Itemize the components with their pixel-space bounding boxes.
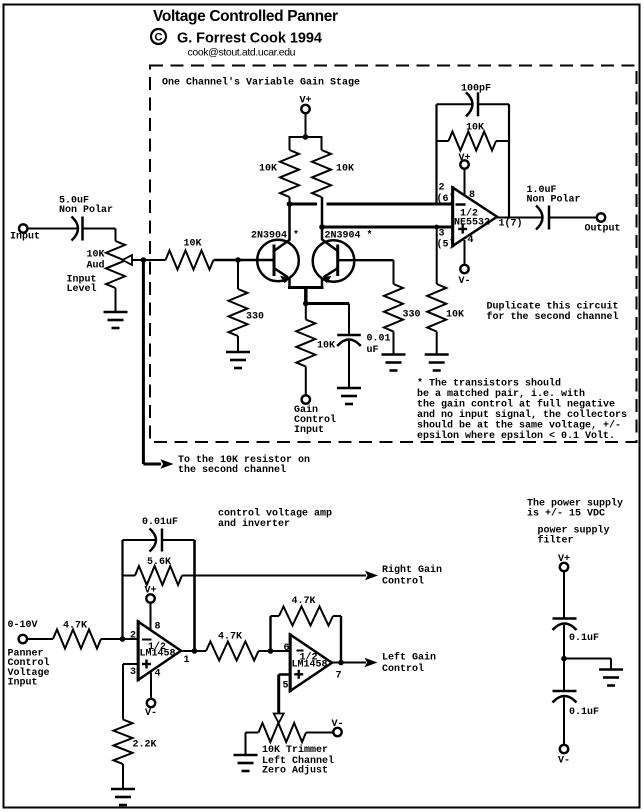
svg-text:should be at the same voltage,: should be at the same voltage, +/- (417, 420, 621, 432)
resistor 10K op-amp plus load (427, 225, 464, 355)
svg-text:8: 8 (155, 622, 161, 633)
svg-text:Level: Level (67, 283, 97, 295)
svg-text:the gain control at full negat: the gain control at full negative (417, 399, 615, 411)
svg-text:V+: V+ (459, 153, 471, 164)
svg-text:6: 6 (284, 643, 290, 654)
svg-text:0.1uF: 0.1uF (569, 633, 599, 644)
wire pin5 LM1458b (279, 673, 290, 676)
svg-text:4: 4 (468, 235, 474, 246)
svg-text:NE5532: NE5532 (454, 218, 490, 229)
wire V+ to pin8 (464, 169, 466, 195)
svg-text:0-10V: 0-10V (8, 620, 38, 631)
wire top bar between collector resistors (289, 136, 323, 138)
gain control input terminal (294, 395, 336, 436)
svg-text:0.1uF: 0.1uF (569, 707, 599, 718)
svg-text:LM1458: LM1458 (292, 660, 328, 671)
wire to pin6 (259, 650, 291, 652)
V- terminal trimmer (332, 719, 344, 736)
svg-text:Aud: Aud (87, 260, 105, 272)
V- terminal U1 (459, 265, 471, 287)
svg-text:8: 8 (469, 190, 475, 201)
resistor 2.2K (114, 720, 157, 791)
op-amp U2 LM1458 b (290, 633, 332, 692)
ground trimmer (234, 755, 258, 771)
wire to second channel (thick vertical) (142, 260, 145, 464)
svg-text:V-: V- (145, 708, 157, 719)
svg-text:4.7K: 4.7K (292, 596, 316, 607)
svg-text:C: C (155, 32, 163, 44)
wire V+ down (305, 113, 307, 137)
V+ terminal power (558, 554, 570, 571)
resistor 330 left (229, 257, 265, 352)
wire pin3 LM1458a (123, 663, 138, 665)
wire right collector vertical (321, 197, 324, 240)
wire op-amp output (497, 217, 542, 219)
resistor 10K series input (166, 239, 214, 270)
ground under right 330 (382, 355, 406, 371)
svg-text:5.6K: 5.6K (147, 557, 171, 568)
wire feedback left vertical LM1458a (121, 540, 123, 639)
svg-text:Duplicate this circuit: Duplicate this circuit (487, 301, 619, 313)
capacitor 1.0uF non polar output (527, 185, 581, 230)
wire feedback right vertical LM1458a (193, 540, 196, 651)
svg-text:4.7K: 4.7K (218, 632, 242, 643)
svg-text:LM1458: LM1458 (140, 649, 176, 660)
wire emitter tap down (304, 288, 308, 304)
svg-text:epsilon where epsilon < 0.1 Vo: epsilon where epsilon < 0.1 Volt. (417, 430, 615, 442)
wire cap to output terminal (549, 217, 597, 219)
op-amp U1 NE5532 (453, 186, 498, 247)
capacitor 0.01uF feedback LM1458a (123, 517, 195, 552)
wire base Q2 to 330 (338, 259, 394, 261)
svg-text:the second channel: the second channel (178, 464, 286, 476)
svg-text:be a matched pair, i.e. with: be a matched pair, i.e. with (417, 388, 585, 400)
svg-text:2N3904 *: 2N3904 * (325, 230, 373, 242)
capacitor 100pF feedback (437, 84, 510, 117)
svg-text:3: 3 (439, 229, 445, 240)
svg-text:3: 3 (130, 667, 136, 678)
svg-text:(6): (6) (437, 193, 455, 205)
resistor 10K gain control (296, 304, 335, 396)
wire emitter bar (288, 286, 324, 289)
svg-text:2.2K: 2.2K (133, 740, 157, 751)
svg-text:Control: Control (382, 576, 424, 588)
svg-text:Control: Control (382, 663, 424, 675)
wire 10K to base Q1 (214, 259, 275, 261)
ground under left 330 (226, 352, 250, 368)
wire output LM1458b (332, 662, 366, 664)
V+ terminal U1 (459, 153, 471, 169)
V- terminal power (558, 745, 570, 767)
svg-text:Input: Input (10, 232, 40, 243)
resistor 10K left collector (259, 137, 299, 204)
svg-text:330: 330 (403, 310, 421, 321)
svg-text:V+: V+ (558, 554, 570, 565)
svg-text:0.01uF: 0.01uF (142, 517, 178, 528)
svg-text:Zero Adjust: Zero Adjust (262, 765, 328, 777)
svg-text:Input: Input (8, 678, 38, 689)
wire V+ down (563, 571, 565, 618)
arrow left gain control (365, 658, 378, 667)
V+ terminal LM1458a (145, 586, 157, 603)
svg-text:V-: V- (332, 719, 344, 730)
ground under 10K load (425, 355, 449, 371)
arrow right gain control (365, 571, 378, 580)
svg-text:cook@stout.atd.ucar.edu: cook@stout.atd.ucar.edu (188, 47, 296, 59)
panner control input terminal (8, 620, 38, 643)
capacitor 0.01uF emitter (337, 304, 390, 389)
svg-text:10K: 10K (184, 239, 202, 250)
wire wiper to 10K (132, 259, 166, 261)
wire pin3 from right collector to op-amp (322, 226, 453, 229)
svg-text:4.7K: 4.7K (63, 621, 87, 632)
copyright symbol (151, 29, 166, 44)
svg-text:4: 4 (155, 669, 161, 680)
capacitor 5.0uF non polar (59, 196, 113, 241)
ground under 0.01uF (337, 388, 361, 404)
svg-text:One Channel's Variable Gain St: One Channel's Variable Gain Stage (162, 77, 360, 89)
output terminal (585, 213, 621, 234)
svg-text:2: 2 (439, 183, 445, 194)
svg-text:is +/- 15 VDC: is +/- 15 VDC (527, 508, 605, 520)
svg-text:330: 330 (246, 312, 264, 323)
dashed box: one channel variable gain stage (150, 66, 637, 443)
wire 4.7K to pin2 (101, 638, 138, 640)
wire pin2 from left collector to op-amp (with crossover gap) (290, 203, 318, 206)
svg-text:G. Forrest Cook 1994: G. Forrest Cook 1994 (177, 31, 322, 47)
svg-text:10K: 10K (466, 123, 484, 134)
resistor 10K feedback (437, 123, 510, 151)
svg-text:and no input signal, the colle: and no input signal, the collectors (417, 409, 627, 421)
svg-text:Voltage Controlled Panner: Voltage Controlled Panner (153, 8, 338, 25)
svg-text:Non Polar: Non Polar (527, 194, 581, 206)
svg-text:Left Gain: Left Gain (382, 652, 436, 664)
svg-text:10K: 10K (446, 310, 464, 321)
capacitor 0.1uF upper (553, 619, 600, 645)
svg-text:10K: 10K (259, 164, 277, 175)
svg-text:Right Gain: Right Gain (382, 564, 442, 576)
svg-text:(5): (5) (437, 239, 455, 251)
potentiometer 10K Aud input level (67, 229, 126, 313)
wire pin4 to V- (464, 240, 466, 265)
wire feedback left vertical (435, 104, 437, 204)
svg-text:filter: filter (538, 535, 574, 547)
arrow to second channel (161, 459, 174, 468)
svg-text:10K: 10K (87, 250, 105, 261)
ground under pot (104, 312, 128, 328)
svg-text:Non Polar: Non Polar (59, 204, 113, 216)
wire trimmer left to ground (246, 732, 259, 734)
V+ terminal gain stage (300, 96, 312, 114)
svg-text:V+: V+ (145, 586, 157, 597)
svg-text:10K: 10K (336, 164, 354, 175)
wire junction to ground (564, 658, 611, 660)
wire feedback left vertical LM1458b (269, 616, 271, 651)
svg-text:10K: 10K (317, 341, 335, 352)
wire feedback right vertical (508, 104, 510, 217)
svg-text:7: 7 (336, 671, 342, 682)
wire cap to pot (83, 228, 116, 230)
svg-text:0.01: 0.01 (367, 334, 391, 345)
input terminal (10, 224, 40, 242)
resistor 330 right (384, 284, 421, 355)
resistor 4.7K series (206, 632, 259, 661)
svg-text:V-: V- (558, 756, 570, 767)
wire trimmer right to V- (306, 732, 333, 734)
transistor Q2 2N3904 right (313, 240, 355, 288)
svg-text:Output: Output (585, 224, 621, 235)
svg-text:100pF: 100pF (461, 84, 491, 95)
wire V+ to pin8 LM1458a (150, 603, 152, 630)
trimmer 10K (259, 723, 335, 777)
wire junction to cap (306, 302, 349, 305)
svg-text:Input: Input (294, 425, 324, 436)
wire left collector vertical (288, 204, 291, 240)
ground under 2.2K (111, 789, 135, 805)
svg-text:1: 1 (184, 655, 190, 666)
resistor 5.6K feedback (123, 557, 182, 585)
transistor Q1 2N3904 left (257, 240, 299, 288)
wire cap2 to V- (563, 698, 565, 745)
resistor 4.7K input (53, 621, 101, 649)
svg-text:control voltage amp: control voltage amp (218, 508, 332, 520)
svg-text:uF: uF (367, 345, 379, 356)
svg-text:and inverter: and inverter (218, 518, 290, 530)
resistor 10K right collector (312, 137, 354, 197)
trimmer wiper arrow (274, 714, 284, 724)
svg-text:V+: V+ (300, 96, 312, 107)
wire input to 4.7K (27, 638, 53, 640)
svg-text:10K Trimmer: 10K Trimmer (262, 744, 328, 756)
svg-text:* The transistors should: * The transistors should (417, 378, 561, 390)
op-amp U2 LM1458 a (138, 620, 181, 681)
ground power filter (599, 670, 623, 686)
svg-text:for the second channel: for the second channel (487, 311, 619, 323)
resistor 4.7K feedback LM1458b (271, 596, 342, 626)
wire cap1 to junction (563, 625, 565, 691)
wire right gain control (182, 575, 366, 577)
wire feedback right vertical LM1458b (340, 616, 342, 663)
svg-text:1(7): 1(7) (499, 218, 523, 230)
wire output LM1458a (181, 650, 206, 652)
wire pin4 LM1458a (150, 673, 152, 699)
pot wiper arrow (123, 255, 133, 265)
V- terminal LM1458a (145, 699, 157, 719)
svg-text:V-: V- (459, 276, 471, 287)
svg-text:2N3904 *: 2N3904 * (251, 230, 299, 242)
wire input to cap (27, 228, 77, 230)
svg-text:5: 5 (283, 681, 289, 692)
capacitor 0.1uF lower (553, 691, 600, 718)
